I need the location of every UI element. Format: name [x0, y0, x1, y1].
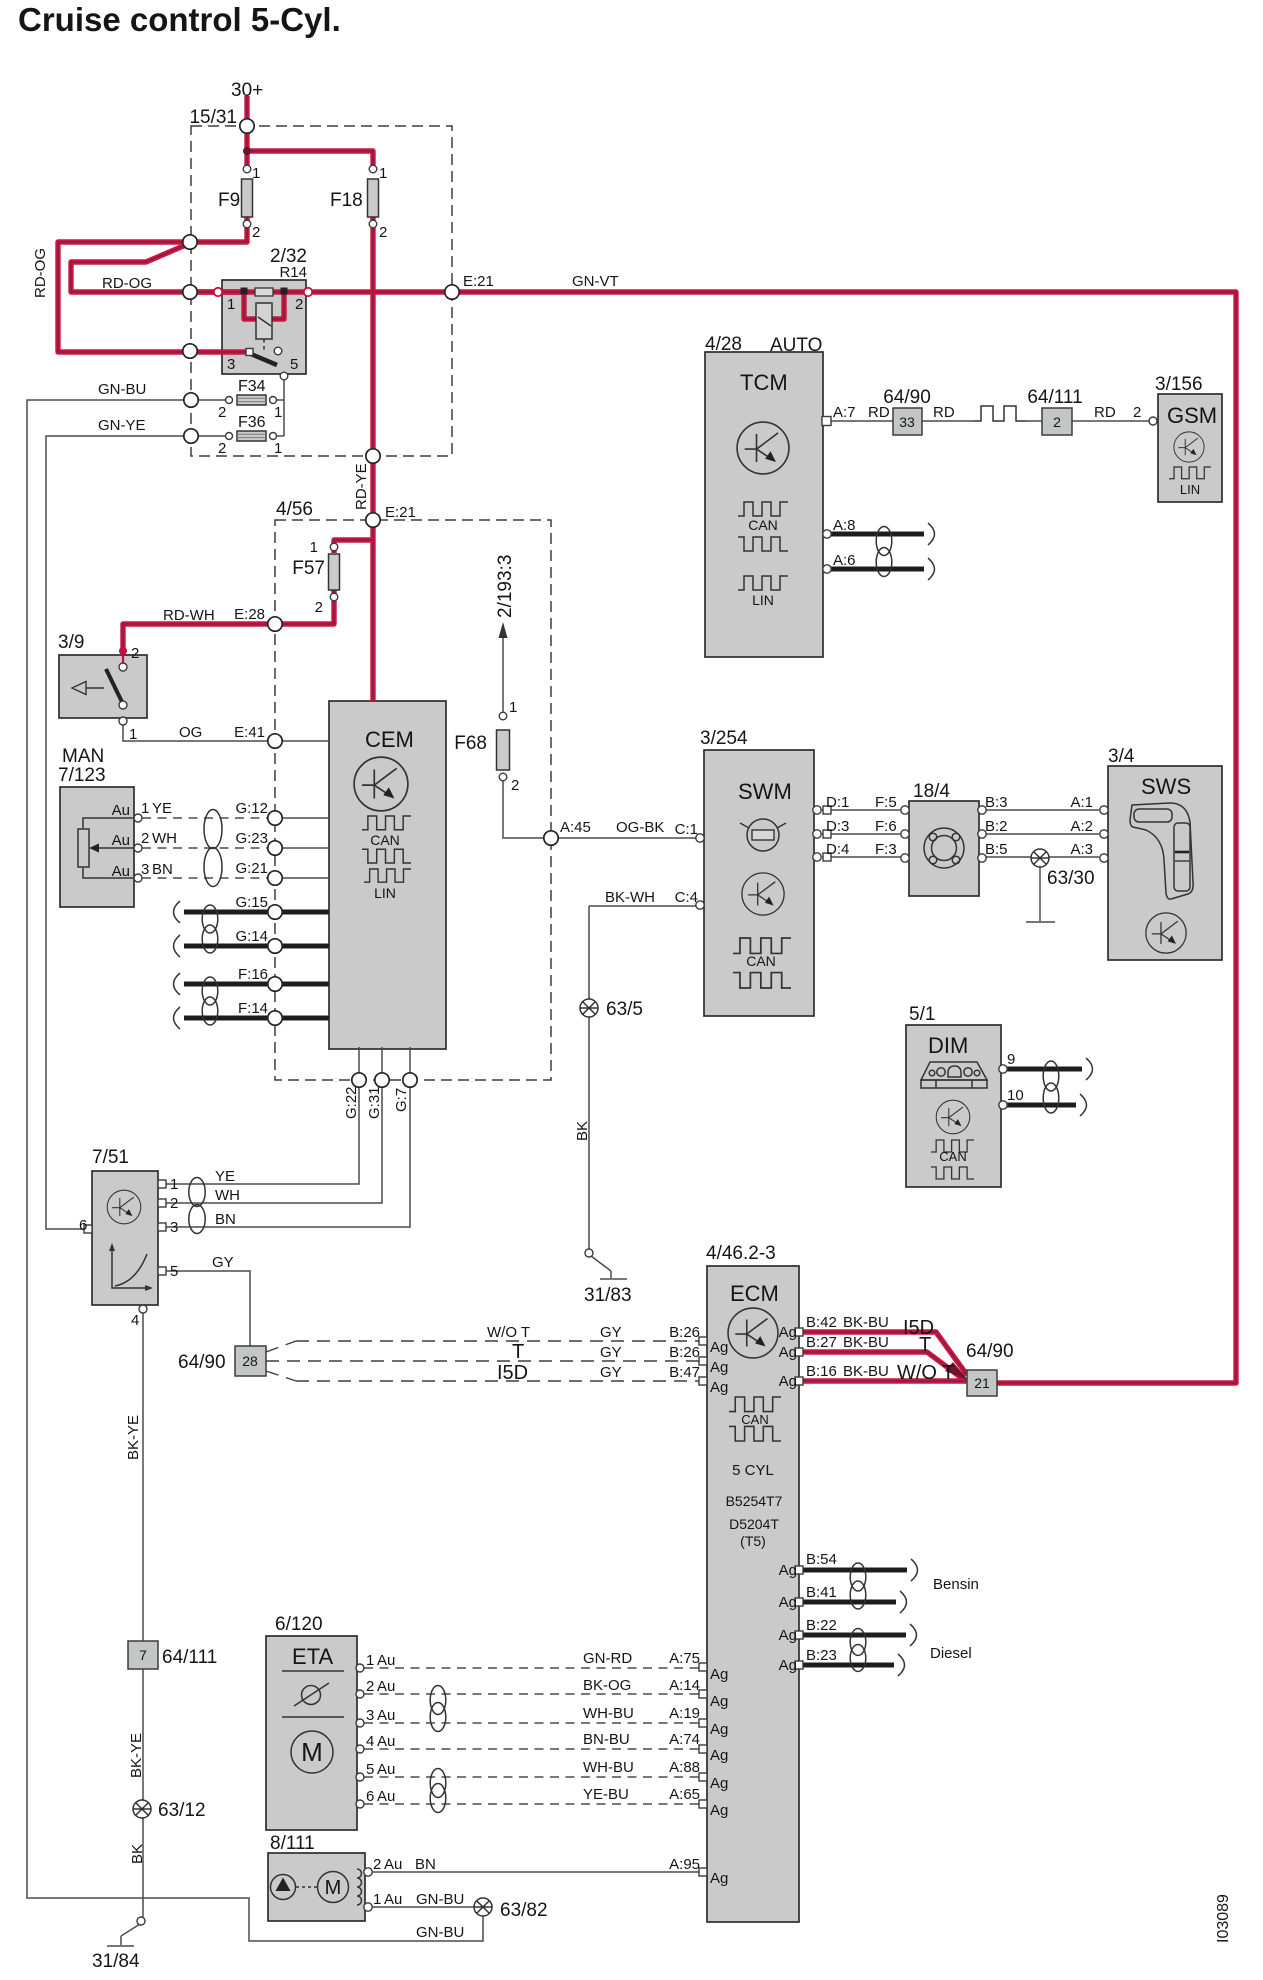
ground symbol 63/5	[580, 999, 598, 1017]
MAN switch 7/123 box	[60, 787, 134, 907]
svg-text:2: 2	[511, 777, 519, 794]
svg-text:B:3: B:3	[985, 794, 1008, 811]
svg-text:SWM: SWM	[738, 779, 792, 804]
svg-text:Au: Au	[377, 1761, 395, 1778]
pin circles SWM	[696, 834, 704, 842]
svg-text:GY: GY	[600, 1344, 622, 1361]
svg-text:BK-OG: BK-OG	[583, 1677, 631, 1694]
svg-text:YE-BU: YE-BU	[583, 1786, 629, 1803]
red wire RD-OG outer loop	[58, 242, 246, 352]
red wire F57 branch	[334, 540, 373, 553]
wire BN (MAN pin3, dashed)	[142, 877, 269, 879]
svg-text:Au: Au	[377, 1733, 395, 1750]
svg-text:1: 1	[366, 1652, 374, 1669]
svg-text:A:8: A:8	[833, 517, 856, 534]
svg-text:BK-BU: BK-BU	[843, 1314, 889, 1331]
DIM pin 10 wire	[1005, 1103, 1076, 1108]
MAN potentiometer symbol	[78, 829, 89, 867]
svg-text:Ag: Ag	[779, 1373, 797, 1390]
connector 18/4 box	[909, 801, 979, 896]
SWM CAN symbol	[733, 938, 791, 953]
svg-text:B:2: B:2	[985, 818, 1008, 835]
wire TCM A:7 to GSM (RD)	[831, 420, 1149, 422]
pin squares ECM left	[699, 1337, 707, 1345]
DIM pin 9 wire	[1005, 1067, 1082, 1072]
TCM transistor symbol	[737, 422, 789, 474]
svg-text:F36: F36	[238, 414, 266, 431]
TCM A:8 wire (twisted)	[831, 532, 924, 537]
svg-text:OG: OG	[179, 724, 202, 741]
svg-text:F:6: F:6	[875, 818, 897, 835]
svg-text:2: 2	[315, 599, 323, 616]
GSM module 3/156 box	[1158, 394, 1222, 502]
svg-text:5 CYL: 5 CYL	[732, 1462, 774, 1479]
junction circle A:45	[544, 831, 558, 845]
svg-text:Au: Au	[112, 802, 130, 819]
svg-text:2: 2	[218, 440, 226, 457]
svg-text:31/83: 31/83	[584, 1285, 632, 1306]
svg-text:2: 2	[252, 224, 260, 241]
ECM B:54 wire	[802, 1568, 907, 1573]
svg-text:ETA: ETA	[292, 1644, 333, 1669]
svg-text:G:12: G:12	[235, 800, 268, 817]
svg-text:31/84: 31/84	[92, 1951, 140, 1972]
svg-text:G:15: G:15	[235, 894, 268, 911]
pin circles F57	[330, 543, 338, 551]
svg-text:CAN: CAN	[939, 1149, 966, 1164]
wires 18/4 B pins to SWS	[983, 810, 1099, 857]
svg-text:GY: GY	[600, 1324, 622, 1341]
svg-text:33: 33	[899, 414, 915, 430]
svg-text:A:95: A:95	[669, 1856, 700, 1873]
pin circles TCM A:8 A:6	[823, 530, 831, 538]
svg-text:A:65: A:65	[669, 1786, 700, 1803]
svg-text:AUTO: AUTO	[770, 335, 822, 356]
svg-text:5: 5	[290, 356, 298, 373]
svg-text:SWS: SWS	[1141, 774, 1191, 799]
svg-text:BN: BN	[415, 1856, 436, 1873]
svg-text:Diesel: Diesel	[930, 1645, 972, 1662]
svg-text:6: 6	[366, 1788, 374, 1805]
svg-text:RD-OG: RD-OG	[102, 275, 152, 292]
connector circles 15/31 row	[240, 119, 254, 133]
svg-text:G:23: G:23	[235, 830, 268, 847]
connector circle E:21 right	[445, 285, 459, 299]
svg-text:Ag: Ag	[710, 1747, 728, 1764]
svg-text:BN-BU: BN-BU	[583, 1731, 630, 1748]
small box 64/90 "21"	[967, 1370, 997, 1396]
svg-text:LIN: LIN	[374, 885, 396, 901]
7/51 curve symbol	[112, 1249, 150, 1288]
pin circles MAN	[134, 814, 142, 822]
CEM F:14 wire	[184, 1016, 329, 1021]
wire G:7 (CEM to 7/51 pin3 BN)	[166, 1047, 410, 1227]
wire to 2/193:3 with arrow	[502, 636, 504, 712]
svg-text:YE: YE	[152, 800, 172, 817]
connector circles 4/56 left edge	[268, 617, 282, 631]
svg-text:1: 1	[509, 699, 517, 716]
red wire relay coil dip	[244, 291, 284, 319]
small box 64/90 "28"	[235, 1346, 266, 1376]
svg-text:A:3: A:3	[1070, 841, 1093, 858]
fuse F18	[368, 179, 379, 217]
svg-text:WH-BU: WH-BU	[583, 1705, 634, 1722]
wire GN-BU long run	[27, 400, 483, 1941]
CEM transistor symbol	[354, 757, 408, 811]
pin circles F18	[369, 165, 377, 173]
svg-text:BK-WH: BK-WH	[605, 889, 655, 906]
pin circle relay pin5 exit	[280, 372, 288, 380]
svg-text:BK-BU: BK-BU	[843, 1334, 889, 1351]
svg-text:4: 4	[366, 1733, 374, 1750]
fuse F36	[237, 431, 266, 441]
svg-text:D5204T: D5204T	[729, 1516, 779, 1532]
svg-text:Ag: Ag	[710, 1775, 728, 1792]
wire stubs G:12 G:23 G:21 to CEM	[283, 818, 329, 878]
svg-text:2: 2	[170, 1195, 178, 1212]
motor symbol 8/111	[318, 1872, 349, 1903]
svg-text:1: 1	[274, 404, 282, 421]
svg-text:GY: GY	[212, 1254, 234, 1271]
connector circle RD-YE bottom	[366, 449, 380, 463]
svg-text:Ag: Ag	[710, 1802, 728, 1819]
svg-text:A:19: A:19	[669, 1705, 700, 1722]
svg-text:64/111: 64/111	[1027, 387, 1082, 408]
pin circles 8/111	[364, 1868, 372, 1876]
CEM module box	[329, 701, 446, 1049]
svg-text:6/120: 6/120	[275, 1614, 323, 1635]
pin circles F36	[226, 433, 233, 440]
red dot 3/9 pin2	[119, 647, 127, 655]
svg-text:Ag: Ag	[710, 1693, 728, 1710]
svg-text:F:16: F:16	[238, 966, 268, 983]
pin circles DIM	[999, 1065, 1007, 1073]
3/9 switch arrow symbol	[86, 687, 104, 689]
svg-text:RD-WH: RD-WH	[163, 607, 215, 624]
svg-text:CEM: CEM	[365, 727, 414, 752]
svg-text:TCM: TCM	[740, 370, 788, 395]
svg-text:6: 6	[79, 1217, 87, 1234]
svg-text:E:41: E:41	[234, 724, 265, 741]
svg-text:Bensin: Bensin	[933, 1576, 979, 1593]
svg-text:F:5: F:5	[875, 794, 897, 811]
svg-text:B:54: B:54	[806, 1551, 837, 1568]
svg-text:1: 1	[141, 800, 149, 817]
GSM LIN symbol	[1169, 467, 1211, 479]
ETA motor symbol	[291, 1731, 333, 1773]
TCM LIN symbol	[738, 576, 788, 590]
svg-text:2: 2	[1053, 414, 1061, 430]
svg-text:D:3: D:3	[826, 818, 849, 835]
pin circles ETA	[356, 1664, 364, 1672]
svg-text:BK-YE: BK-YE	[128, 1733, 145, 1778]
svg-text:2: 2	[131, 645, 139, 662]
svg-text:M: M	[325, 1877, 342, 1899]
svg-text:A:7: A:7	[833, 404, 856, 421]
wire GY (7/51 pin5 to 64/90)	[162, 1271, 250, 1346]
DIM CAN symbol	[931, 1140, 974, 1152]
svg-text:C:4: C:4	[675, 889, 698, 906]
connector circle E:21 top 4/56	[366, 513, 380, 527]
svg-text:RD-OG: RD-OG	[32, 248, 49, 298]
svg-text:G:31: G:31	[366, 1086, 383, 1119]
relay internals over red	[255, 288, 273, 296]
svg-text:E:28: E:28	[234, 606, 265, 623]
svg-text:WH-BU: WH-BU	[583, 1759, 634, 1776]
svg-text:64/90: 64/90	[178, 1352, 226, 1373]
fuse F68	[497, 730, 510, 770]
connector box 4/56 (dashed)	[275, 520, 551, 1080]
svg-text:A:88: A:88	[669, 1759, 700, 1776]
CEM LIN symbol	[364, 869, 411, 882]
svg-text:3: 3	[366, 1707, 374, 1724]
fuse F9	[242, 179, 253, 217]
svg-text:W/O T: W/O T	[487, 1324, 530, 1341]
svg-text:CAN: CAN	[748, 517, 778, 533]
svg-text:BK-YE: BK-YE	[125, 1415, 142, 1460]
svg-text:Ag: Ag	[779, 1344, 797, 1361]
DIM cluster symbol	[921, 1062, 987, 1080]
pin circles 18/4	[901, 806, 909, 814]
svg-text:T: T	[512, 1341, 524, 1363]
svg-text:2: 2	[379, 224, 387, 241]
ECM transistor symbol	[728, 1308, 778, 1358]
svg-text:1: 1	[310, 539, 318, 556]
red wire branch to F18	[247, 151, 373, 169]
svg-text:CAN: CAN	[370, 832, 400, 848]
svg-text:8/111: 8/111	[270, 1833, 315, 1854]
svg-text:1: 1	[170, 1176, 178, 1193]
svg-text:9: 9	[1007, 1051, 1015, 1068]
svg-text:30+: 30+	[231, 80, 263, 101]
coil symbol 8/111	[357, 1869, 362, 1905]
svg-text:G:22: G:22	[343, 1086, 360, 1119]
small box 64/111 "7"	[128, 1641, 158, 1669]
connector circles 4/56 bottom edge	[352, 1073, 366, 1087]
ECM B:23 wire	[802, 1663, 894, 1668]
svg-text:B5254T7: B5254T7	[726, 1493, 783, 1509]
twisted pair MAN	[204, 810, 222, 849]
red wire 30+ feed	[244, 96, 249, 169]
switch circle 31/84	[137, 1917, 145, 1925]
relay 2/32 R14 box	[222, 280, 306, 374]
svg-text:A:45: A:45	[560, 819, 591, 836]
ETA dashed wires rows 1-6	[364, 1668, 703, 1804]
wire BK-WH (to SWM C:4)	[589, 905, 696, 907]
svg-text:4: 4	[131, 1312, 139, 1329]
svg-text:I03089: I03089	[1215, 1894, 1232, 1943]
svg-text:21: 21	[974, 1375, 990, 1391]
svg-text:R14: R14	[279, 264, 307, 281]
ECM module 4/46.2-3 box	[707, 1266, 799, 1922]
svg-text:B:26: B:26	[669, 1324, 700, 1341]
ECM B:22 wire	[802, 1633, 906, 1638]
ground symbol 63/30	[1031, 849, 1049, 867]
svg-text:2: 2	[373, 1856, 381, 1873]
svg-text:CAN: CAN	[741, 1412, 768, 1427]
pin squares ECM right	[795, 1328, 803, 1336]
svg-text:(T5): (T5)	[740, 1533, 766, 1549]
svg-text:OG-BK: OG-BK	[616, 819, 664, 836]
SWM lamp symbol	[747, 819, 779, 851]
svg-text:GSM: GSM	[1167, 403, 1217, 428]
ground switch 31/83	[591, 1256, 627, 1279]
svg-text:DIM: DIM	[928, 1033, 968, 1058]
wire BN (8/111 pin2 to ECM A:95)	[372, 1871, 703, 1873]
pin circles F68	[499, 712, 507, 720]
svg-text:7/123: 7/123	[58, 765, 106, 786]
pin squares 7/51	[158, 1180, 166, 1188]
svg-text:4/56: 4/56	[276, 499, 313, 520]
wire fuse F34 links	[198, 376, 284, 436]
wire G:31 (CEM to 7/51 pin2 WH)	[166, 1047, 382, 1203]
svg-text:64/90: 64/90	[883, 387, 931, 408]
svg-text:Ag: Ag	[710, 1666, 728, 1683]
small box 64/111 "2"	[1042, 408, 1072, 435]
svg-text:GN-BU: GN-BU	[416, 1924, 464, 1941]
svg-text:Ag: Ag	[779, 1657, 797, 1674]
svg-text:64/111: 64/111	[162, 1647, 217, 1668]
SWS stalk symbol	[1130, 803, 1193, 899]
SWM transistor symbol	[742, 873, 784, 915]
fuse F57	[329, 554, 340, 590]
ground 63/30 drop	[1026, 866, 1055, 922]
switch circle 31/83	[585, 1249, 593, 1257]
svg-text:Ag: Ag	[710, 1379, 728, 1396]
svg-text:F68: F68	[454, 733, 487, 754]
svg-text:Ag: Ag	[779, 1324, 797, 1341]
svg-text:63/12: 63/12	[158, 1800, 206, 1821]
svg-text:10: 10	[1007, 1087, 1024, 1104]
svg-text:Ag: Ag	[710, 1359, 728, 1376]
svg-text:G:14: G:14	[235, 928, 268, 945]
svg-text:Ag: Ag	[779, 1594, 797, 1611]
svg-text:A:74: A:74	[669, 1731, 700, 1748]
sensor 7/51 box	[92, 1171, 158, 1305]
svg-text:RD: RD	[1094, 404, 1116, 421]
svg-text:Ag: Ag	[710, 1870, 728, 1887]
svg-text:GN-BU: GN-BU	[416, 1891, 464, 1908]
SWS transistor symbol	[1146, 913, 1186, 953]
CEM F:16 wire	[184, 982, 329, 987]
fuse F34	[237, 395, 266, 405]
red wire ECM B:42	[802, 1332, 967, 1375]
svg-text:4/46.2-3: 4/46.2-3	[706, 1243, 776, 1264]
svg-text:5: 5	[366, 1761, 374, 1778]
svg-text:Au: Au	[384, 1891, 402, 1908]
svg-text:Au: Au	[112, 863, 130, 880]
svg-text:2: 2	[366, 1678, 374, 1695]
svg-text:1: 1	[373, 1891, 381, 1908]
svg-text:3: 3	[227, 356, 235, 373]
arrowhead into 21 box	[945, 1362, 968, 1380]
red wire F18 down RD-YE to CEM	[370, 217, 375, 701]
red wire F9 out to connector	[191, 217, 247, 242]
svg-text:T: T	[919, 1334, 931, 1356]
ECM CAN symbol	[729, 1397, 781, 1412]
svg-text:D:1: D:1	[826, 794, 849, 811]
svg-text:2: 2	[141, 830, 149, 847]
connector box 15/31 (dashed)	[191, 126, 452, 456]
svg-text:3/156: 3/156	[1155, 374, 1203, 395]
TCM CAN symbol	[738, 502, 788, 516]
svg-text:GN-BU: GN-BU	[98, 381, 146, 398]
3/9 switch blade	[106, 669, 122, 702]
svg-text:ECM: ECM	[730, 1281, 779, 1306]
svg-text:B:16: B:16	[806, 1363, 837, 1380]
wire GN-YE long run	[46, 436, 185, 1229]
svg-text:5/1: 5/1	[909, 1004, 935, 1025]
red wire ECM B:16	[802, 1378, 966, 1383]
pump module 8/111 box	[268, 1853, 365, 1921]
wire BK (63/5 down to 31/83)	[588, 906, 590, 1249]
svg-text:BN: BN	[152, 861, 173, 878]
wire OG-BK (F68 to A:45 to SWM C:1)	[503, 781, 696, 838]
svg-text:63/82: 63/82	[500, 1900, 548, 1921]
svg-text:G:21: G:21	[235, 860, 268, 877]
svg-text:7/51: 7/51	[92, 1147, 129, 1168]
wire WH (MAN pin2, dashed)	[142, 847, 269, 849]
svg-text:1: 1	[129, 726, 137, 743]
svg-text:2: 2	[1133, 404, 1141, 421]
svg-text:B:42: B:42	[806, 1314, 837, 1331]
svg-text:63/5: 63/5	[606, 999, 643, 1020]
svg-text:CAN: CAN	[746, 953, 776, 969]
svg-text:B:23: B:23	[806, 1647, 837, 1664]
red wire RD-WH to 3/9	[123, 590, 334, 652]
ground symbol 63/82	[474, 1898, 492, 1916]
wire GN-BU (8/111 pin1 to 63/82)	[372, 1906, 475, 1908]
svg-text:Cruise control 5-Cyl.: Cruise control 5-Cyl.	[18, 1, 341, 38]
svg-text:Au: Au	[377, 1652, 395, 1669]
svg-text:F18: F18	[330, 190, 363, 211]
pin circles F34	[226, 397, 233, 404]
svg-text:BK: BK	[574, 1121, 591, 1141]
CEM G:15 wire	[184, 910, 329, 915]
pin square TCM A:7	[822, 417, 831, 426]
junction dot	[243, 147, 251, 155]
svg-text:Ag: Ag	[710, 1721, 728, 1738]
svg-text:B:5: B:5	[985, 841, 1008, 858]
svg-text:18/4: 18/4	[913, 781, 950, 802]
pin circles F9	[243, 165, 251, 173]
red wire RD-OG inner loop	[71, 244, 248, 292]
SWS module 3/4 box	[1108, 766, 1222, 960]
svg-text:A:2: A:2	[1070, 818, 1093, 835]
svg-text:7: 7	[139, 1647, 147, 1663]
svg-text:5: 5	[170, 1263, 178, 1280]
svg-text:WH: WH	[215, 1187, 240, 1204]
svg-text:Ag: Ag	[779, 1562, 797, 1579]
wires SWM D pins to 18/4	[822, 810, 909, 857]
svg-text:2: 2	[295, 296, 303, 313]
svg-text:GN-VT: GN-VT	[572, 273, 619, 290]
svg-text:F9: F9	[218, 190, 240, 211]
ground switch 31/84	[107, 1924, 140, 1946]
svg-text:1: 1	[252, 165, 260, 182]
svg-text:F57: F57	[292, 558, 325, 579]
ECM B:41 wire	[802, 1600, 896, 1605]
svg-text:D:4: D:4	[826, 841, 849, 858]
CEM G:14 wire	[184, 944, 329, 949]
pin circles 3/9	[119, 663, 127, 671]
switch 3/9 box	[59, 655, 147, 718]
svg-text:YE: YE	[215, 1168, 235, 1185]
svg-text:E:21: E:21	[463, 273, 494, 290]
svg-text:W/O T: W/O T	[897, 1362, 954, 1384]
ETA throttle symbol	[282, 1671, 344, 1717]
svg-text:63/30: 63/30	[1047, 868, 1095, 889]
